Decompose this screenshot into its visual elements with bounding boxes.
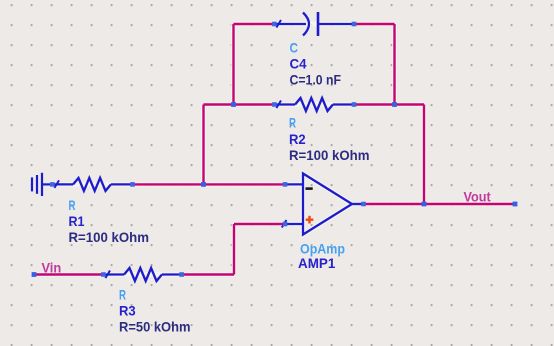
svg-text:Vin: Vin [42,259,62,275]
svg-text:R: R [289,115,296,131]
wire halo underlay [34,24,515,275]
op-amp plus sign [306,216,314,224]
ground (left of R1) [32,173,52,196]
resistor R3 [103,268,181,281]
svg-text:R2: R2 [289,131,306,147]
resistor R2 [274,98,354,111]
wire: R3 to riser [182,273,234,275]
wire: R2 left segment [204,103,275,105]
wire: feedback left vertical (node between R1/R2/C4) [232,24,234,105]
svg-text:C: C [290,39,299,55]
wire: op-amp output to Vout [364,203,516,205]
pin square R2.1 [272,102,277,107]
wire: feedback right vertical down to output [423,105,425,205]
pin square C4.1 [272,22,277,27]
terminal Vout [513,202,518,207]
wire: vertical from R2 node down to inverting input [202,105,204,185]
svg-text:R1: R1 [69,213,85,229]
junction node feedback / output [422,202,427,207]
pin square opamp output [361,202,366,207]
svg-text:R=50 kOhm: R=50 kOhm [119,319,191,335]
svg-text:R=100 kOhm: R=100 kOhm [289,147,370,163]
svg-text:Vout: Vout [464,189,491,205]
junction node R1/R2 [201,182,206,187]
pin square R2.2 [352,102,357,107]
wire: R1 output to op-amp inverting input [133,183,286,185]
pin square C4.2 [352,22,357,27]
pin square R1.2 [130,182,135,187]
wire: feedback right vertical [393,24,395,105]
svg-text:C4: C4 [290,55,307,71]
svg-text:R: R [69,197,76,213]
wire: non-inverting input horizontal [234,223,285,225]
wire: Vin to R3 [34,273,103,275]
op-amp minus sign [306,187,313,190]
svg-text:AMP1: AMP1 [298,255,335,271]
pin square R3.2 [179,272,184,277]
wire: non-inverting input vertical riser [233,224,235,275]
wire: C4 top-right segment [354,23,395,25]
svg-text:R=100 kOhm: R=100 kOhm [69,229,150,245]
resistor R1 [52,178,132,191]
junction node C4 right / R2 [392,102,397,107]
pin square R3.1 [101,272,106,277]
terminal Vin [32,272,37,277]
svg-text:R: R [119,287,126,303]
pin square opamp non-inverting [283,222,288,227]
pin square opamp inverting [283,182,288,187]
capacitor C4 [274,12,354,36]
pin square R1.1 [50,182,55,187]
wire: R2 right segment [354,103,424,105]
op-amp U1 (AMP1) [282,174,364,235]
wire: C4 top-left segment [234,23,275,25]
svg-text:R3: R3 [119,303,136,319]
svg-text:C=1.0 nF: C=1.0 nF [290,71,342,87]
svg-text:OpAmp: OpAmp [300,240,345,256]
junction node C4 left / R2 [231,102,236,107]
